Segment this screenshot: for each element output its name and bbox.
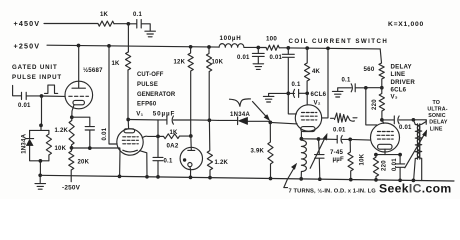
svg-text:0.01: 0.01 xyxy=(102,127,108,140)
svg-text:0.01: 0.01 xyxy=(399,125,412,131)
resistor R7 12K xyxy=(174,47,194,136)
node bias junction xyxy=(70,146,74,150)
svg-text:0.01: 0.01 xyxy=(333,128,346,134)
label 7 TURNS leader xyxy=(284,163,297,187)
waveform spike glyph xyxy=(230,99,251,106)
resistor R14 560 xyxy=(364,63,385,88)
svg-text:V₂: V₂ xyxy=(314,99,321,106)
tube V 5687 envelope xyxy=(65,81,93,109)
tube V2 grid dashes xyxy=(301,113,317,120)
svg-text:GATED UNIT: GATED UNIT xyxy=(12,64,58,71)
svg-text:GENERATOR: GENERATOR xyxy=(137,92,176,98)
wire V1 g3 lead xyxy=(142,136,158,138)
svg-text:½5687: ½5687 xyxy=(83,67,103,74)
svg-text:+250V: +250V xyxy=(14,41,41,50)
svg-text:SONIC: SONIC xyxy=(428,113,446,119)
resistor R6 20K xyxy=(69,148,90,182)
transformer T1 core xyxy=(418,124,420,159)
input terminal xyxy=(13,86,22,96)
node primary rail xyxy=(412,179,416,183)
tube V1 plate bar xyxy=(124,120,135,133)
wire V3 cathode bus xyxy=(376,154,400,156)
svg-text:1K: 1K xyxy=(112,61,121,67)
watermark SeekIC.com xyxy=(379,181,452,195)
node 10K tap xyxy=(207,45,211,49)
svg-text:0.1: 0.1 xyxy=(164,158,173,164)
label uuF xyxy=(333,156,344,163)
tube 0A2 anode xyxy=(188,136,195,150)
wire 1K drop to V1 plate xyxy=(127,24,129,52)
svg-text:100µH: 100µH xyxy=(220,35,242,42)
svg-text:PULSE INPUT: PULSE INPUT xyxy=(12,74,62,81)
tube V3 envelope xyxy=(371,123,400,152)
svg-text:10K: 10K xyxy=(360,153,366,165)
wire R3 to node xyxy=(279,47,288,49)
tube 5687 grid dashes xyxy=(69,95,89,97)
resistor R1 1K (plate load feed) xyxy=(98,12,114,26)
svg-text:0.1: 0.1 xyxy=(292,82,301,88)
tube V1 cathode arc xyxy=(123,150,138,152)
resistor R10 1.2K xyxy=(207,120,228,177)
capacitor C9 trimmer 7-45uuF xyxy=(315,139,324,179)
tube V2 cathode lead xyxy=(300,132,302,139)
label TO xyxy=(433,100,441,106)
node clamp junction xyxy=(30,124,49,131)
label DELAY2 xyxy=(429,120,448,126)
wire node to R3 xyxy=(258,47,266,49)
parasitic squiggle glyph xyxy=(331,113,358,123)
tube V3 cathode lead xyxy=(384,149,386,154)
capacitor C10 0.01 coupling xyxy=(333,128,350,144)
svg-text:PULSE: PULSE xyxy=(137,82,158,88)
label -250V xyxy=(62,185,81,192)
wire coil-current-switch rail xyxy=(288,48,380,49)
label GENERATOR xyxy=(137,92,176,98)
resistor R12 4K xyxy=(305,48,321,93)
label SONIC xyxy=(428,113,446,119)
node V1 g3 junction xyxy=(156,135,160,139)
tube V2 cathode bracket xyxy=(301,127,315,132)
node V3 cath right xyxy=(398,153,402,157)
label EFP60 xyxy=(137,102,157,108)
node rail start xyxy=(38,173,42,177)
tube V3 grid dashes xyxy=(377,132,394,140)
wire EFP60 screen from +250V xyxy=(109,46,117,144)
svg-text:4K: 4K xyxy=(312,69,321,75)
capacitor C11 0.1 bypass xyxy=(338,78,366,92)
label 7-45 xyxy=(330,149,343,156)
svg-text:3.9K: 3.9K xyxy=(251,149,265,155)
svg-text:220: 220 xyxy=(372,99,378,110)
wire grid line to V3 xyxy=(350,138,370,141)
svg-text:10K: 10K xyxy=(55,146,67,152)
node bypass bottom xyxy=(88,146,92,150)
label half-5687 xyxy=(83,67,103,74)
resistor R13 10K grid xyxy=(348,139,366,179)
node 0A2 rail xyxy=(189,176,193,180)
wire inductor to node xyxy=(244,46,258,48)
transformer T1 secondary xyxy=(417,120,426,181)
diode D2 1N34A xyxy=(219,112,271,125)
tube 0A2 starter circle xyxy=(188,163,192,167)
resistor R11 3.9K xyxy=(251,122,274,178)
node clamp bottom xyxy=(39,159,43,163)
node decoupling C2 xyxy=(256,46,260,50)
svg-text:0.01: 0.01 xyxy=(392,158,398,171)
svg-text:7 TURNS, ½-IN. O.D. x 1-IN. LG: 7 TURNS, ½-IN. O.D. x 1-IN. LG xyxy=(289,188,377,195)
label K=X1,000 xyxy=(388,21,424,28)
node V2 grid junction xyxy=(268,121,272,125)
trimmer arrow xyxy=(310,133,327,168)
node trimmer tap xyxy=(317,137,321,141)
resistor R9 10K xyxy=(206,47,223,120)
node R10 rail xyxy=(208,176,212,180)
node input junction xyxy=(40,94,44,98)
wire output line xyxy=(413,120,426,125)
label 7 TURNS text xyxy=(289,188,377,195)
tube 5687 cathode xyxy=(72,100,85,117)
resistor R16 220 cathode xyxy=(373,155,387,180)
node V2 cathode junction xyxy=(300,137,304,141)
node coil rail xyxy=(299,177,303,181)
tube V1 cathode lead xyxy=(119,151,121,177)
svg-text:DELAY: DELAY xyxy=(429,120,448,126)
tube V2 envelope xyxy=(295,105,321,131)
wire top rail corner to 560 xyxy=(380,49,381,63)
svg-text:SeekIC.com: SeekIC.com xyxy=(379,181,452,195)
wire R2 to V1 plate node xyxy=(127,70,129,119)
resistor R5 1.2K cathode xyxy=(55,117,75,148)
svg-text:1N34A: 1N34A xyxy=(21,133,27,153)
inductor L1 100&#181;H xyxy=(219,35,244,47)
tube 0A2 cathode dot xyxy=(183,158,186,161)
resistor R15 220 xyxy=(372,88,385,120)
svg-text:K=X1,000: K=X1,000 xyxy=(388,21,424,28)
node screen feed C3 xyxy=(286,46,290,50)
label COIL CURRENT SWITCH xyxy=(289,38,389,45)
node R13 rail xyxy=(349,178,353,182)
node V3 cath left xyxy=(374,153,378,157)
node R11 rail xyxy=(269,177,273,181)
node 5687 cathode junction xyxy=(70,115,74,119)
wire cathode to C10 xyxy=(319,138,338,140)
node screen takeoff xyxy=(364,86,368,90)
capacitor C2 0.01 to ground xyxy=(237,48,264,64)
resistor R4 10K (clamp) xyxy=(46,130,66,160)
label LINE2 xyxy=(430,126,443,132)
wire coupling node drop xyxy=(157,120,159,136)
svg-text:+450V: +450V xyxy=(14,19,41,28)
resistor R3 100 xyxy=(266,36,279,51)
inductor L2 7-turn coil xyxy=(301,139,306,179)
svg-text:LINE: LINE xyxy=(391,71,406,78)
svg-text:0.1: 0.1 xyxy=(133,12,142,18)
node trimmer rail xyxy=(318,177,322,181)
svg-text:ULTRA-: ULTRA- xyxy=(427,107,447,113)
capacitor C13 0.01 output xyxy=(382,116,414,131)
label 6CL6 V3 xyxy=(391,86,407,93)
svg-text:0.1: 0.1 xyxy=(342,78,351,84)
tube V4 0A2 envelope xyxy=(180,147,202,169)
node V3 plate junction xyxy=(380,118,384,122)
node transformer primary tap xyxy=(412,118,416,122)
transformer T1 primary xyxy=(413,120,419,181)
svg-text:1.2K: 1.2K xyxy=(215,160,229,166)
label PULSE xyxy=(137,82,158,88)
node R16 rail xyxy=(374,178,378,182)
wire input to clamp xyxy=(41,96,43,125)
ground main xyxy=(35,184,46,190)
tube V1 grid dashes xyxy=(122,137,138,144)
ground for V2 screen xyxy=(263,96,274,102)
wire bypass gnd stub xyxy=(269,93,289,96)
svg-text:560: 560 xyxy=(364,66,375,73)
label PULSE INPUT xyxy=(12,74,62,81)
svg-text:0.01: 0.01 xyxy=(18,103,31,109)
tube V1 beam lead xyxy=(140,151,147,177)
wire bias to EFP60 cathode xyxy=(72,148,121,151)
wire +450V feed xyxy=(44,23,98,25)
node junction 450V/cap xyxy=(127,22,131,26)
label GATED UNIT xyxy=(12,64,58,71)
label V1 xyxy=(136,111,143,118)
svg-text:220: 220 xyxy=(381,160,387,171)
node screen bypass junction xyxy=(286,92,290,96)
svg-text:12K: 12K xyxy=(174,60,186,66)
svg-text:DRIVER: DRIVER xyxy=(391,79,416,86)
node 4K tap xyxy=(305,46,309,50)
capacitor C3 0.01 (screen decoup) xyxy=(270,48,295,94)
tube 5687 plate xyxy=(72,46,85,89)
wire ground rail xyxy=(40,175,454,181)
node 560/220 junction xyxy=(380,86,384,90)
resistor R2 1K (V1 plate load) xyxy=(112,52,131,70)
svg-text:100: 100 xyxy=(266,36,277,43)
svg-text:1K: 1K xyxy=(170,130,179,136)
node V1 beam rail xyxy=(145,175,149,179)
diode D1 1N34A (clamp) xyxy=(21,130,49,160)
wire plate to tube top xyxy=(382,120,384,123)
resistor R8 1K to 0A2 xyxy=(158,130,191,139)
svg-text:0.01: 0.01 xyxy=(237,55,250,61)
node C7 rail xyxy=(156,175,160,179)
wire 1K to junction xyxy=(114,23,128,25)
svg-text:1K: 1K xyxy=(100,12,109,18)
label DRIVER xyxy=(391,79,416,86)
node +250V supply label xyxy=(14,41,41,50)
capacitor C1 0.1 (450V bypass) xyxy=(128,12,150,31)
capacitor C7 0.1 to rail xyxy=(153,136,173,177)
wire V2 top entry xyxy=(306,93,308,105)
tube 0A2 bottom lead xyxy=(189,167,192,178)
label V3 xyxy=(391,93,398,100)
svg-text:µµF: µµF xyxy=(333,156,344,163)
wire screen bypass drop xyxy=(288,93,296,114)
wire cathode line xyxy=(301,138,318,140)
annotation arrow to grid node xyxy=(253,102,270,121)
svg-text:10K: 10K xyxy=(212,60,224,66)
node 5687 plate tap xyxy=(77,44,81,48)
wire grid junction to V2 g1 xyxy=(270,122,297,124)
svg-text:LINE: LINE xyxy=(430,126,443,132)
label 0A2 xyxy=(167,143,179,150)
svg-text:V₃: V₃ xyxy=(391,93,398,100)
svg-text:0.01: 0.01 xyxy=(270,55,283,61)
svg-text:-250V: -250V xyxy=(62,185,81,192)
capacitor C12 0.01 cathode xyxy=(392,155,405,181)
svg-text:V₁: V₁ xyxy=(136,111,143,118)
wire V1 plate to coupling node xyxy=(128,119,158,121)
node V2 top junction xyxy=(305,91,309,95)
svg-text:EFP60: EFP60 xyxy=(137,102,157,108)
svg-text:1N34A: 1N34A xyxy=(230,112,251,118)
label ULTRA- xyxy=(427,107,447,113)
wire plate line 50uuF to diode xyxy=(191,119,219,122)
svg-text:DELAY: DELAY xyxy=(391,64,412,71)
node V1 plate node xyxy=(126,118,130,122)
capacitor C5 0.01 cathode bypass xyxy=(72,117,108,148)
capacitor C8 0.1 V2 grid2 xyxy=(288,82,307,97)
wire screen drop V3 xyxy=(366,88,377,125)
svg-text:6CL6: 6CL6 xyxy=(311,91,327,98)
capacitor C6 50uuF xyxy=(153,111,191,125)
svg-text:50µµF: 50µµF xyxy=(153,111,175,118)
svg-text:1.2K: 1.2K xyxy=(55,128,69,134)
svg-text:COIL CURRENT SWITCH: COIL CURRENT SWITCH xyxy=(289,38,389,45)
svg-text:0A2: 0A2 xyxy=(167,143,179,150)
svg-text:TO: TO xyxy=(433,100,441,106)
svg-text:20K: 20K xyxy=(78,160,90,166)
node EFP60 screen tap xyxy=(107,44,111,48)
pulse waveform glyph xyxy=(45,85,58,93)
wire +250V rail left xyxy=(47,45,219,47)
capacitor C4 0.01 input coupling xyxy=(18,92,42,109)
node 12K tap xyxy=(189,45,193,49)
wire junction to bypass xyxy=(366,87,382,89)
ground for C1 xyxy=(145,31,156,37)
wire clamp to rail/gnd xyxy=(39,161,41,183)
transformer variable arrow xyxy=(405,130,427,168)
label 6CL6 V2 xyxy=(311,91,327,106)
wire grid lead 5687 xyxy=(42,95,66,97)
node 10K bottom junction xyxy=(208,118,212,122)
node V1 cathode rail xyxy=(118,175,122,179)
node 10K grid tap xyxy=(348,138,352,142)
svg-text:CUT-OFF: CUT-OFF xyxy=(137,72,164,78)
node C12 rail xyxy=(398,178,402,182)
label CUT-OFF xyxy=(137,72,164,78)
ground for C2 xyxy=(253,64,264,70)
node 1K/0A2 junction xyxy=(189,134,193,138)
node +450V supply label xyxy=(14,19,41,28)
node V2 plate tap xyxy=(326,46,330,50)
tube V1 EFP60 envelope xyxy=(117,129,143,155)
label LINE xyxy=(391,71,406,78)
ground for C11 xyxy=(332,91,343,97)
label DELAY xyxy=(391,64,412,71)
tube V3 cathode bracket xyxy=(378,144,392,149)
tube V2 plate lead xyxy=(322,48,328,118)
